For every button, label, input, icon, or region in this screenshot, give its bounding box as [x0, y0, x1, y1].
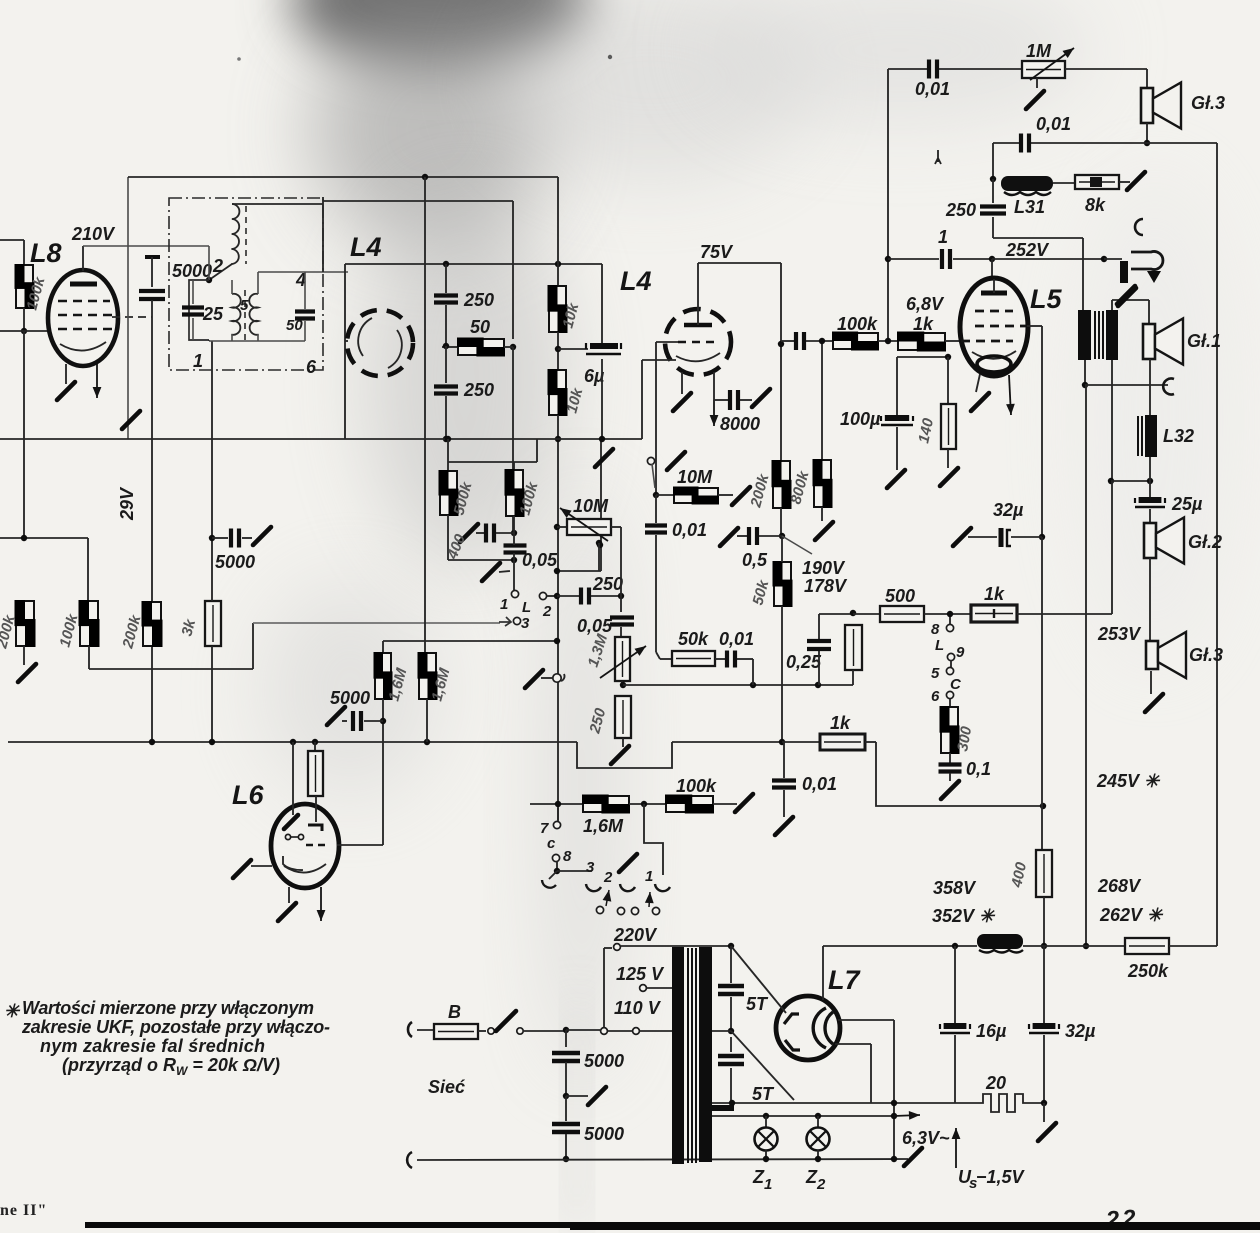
- pot arrow: [560, 508, 608, 541]
- svg-text:zakresie UKF, pozostałe przy w: zakresie UKF, pozostałe przy włączo-: [21, 1017, 330, 1037]
- wire: [765, 1150, 767, 1159]
- wire: [993, 237, 1083, 239]
- svg-text:8: 8: [931, 621, 940, 638]
- wire: [896, 427, 898, 470]
- svg-text:262V ✳: 262V ✳: [1099, 905, 1164, 925]
- wire: [621, 945, 731, 947]
- resistor 1k (output grid): [971, 605, 1017, 622]
- potentiometer 1,3M: [615, 637, 630, 681]
- svg-text:268V: 268V: [1097, 876, 1142, 896]
- node junction: [209, 739, 215, 745]
- coil primary winding: [231, 204, 239, 264]
- wire: [1111, 360, 1113, 481]
- speaker Gł.3 (top): [1141, 83, 1181, 129]
- wire: [382, 641, 384, 653]
- wire: [513, 533, 515, 545]
- capacitor 32µ: [1029, 1024, 1059, 1033]
- wire: [192, 318, 194, 340]
- potentiometer 10M: [567, 519, 611, 535]
- wire: [1146, 69, 1148, 88]
- svg-text:352V ✳: 352V ✳: [932, 906, 996, 926]
- wire: [652, 464, 655, 488]
- wire: [344, 264, 346, 439]
- capacitor 250 (upper): [434, 296, 458, 303]
- svg-text:100k: 100k: [676, 776, 717, 796]
- node junction: [952, 943, 958, 949]
- wire: [660, 658, 672, 660]
- node junction: [815, 1156, 821, 1162]
- capacitor 250 (lower): [434, 387, 458, 394]
- wire: [524, 1030, 565, 1032]
- node junction: [511, 557, 517, 563]
- svg-text:Gł.2: Gł.2: [1188, 532, 1222, 552]
- capacitor 32µ (coupling): [1001, 528, 1011, 547]
- L8 lead arrow down: [93, 364, 102, 398]
- svg-text:5: 5: [931, 665, 940, 682]
- wire: [557, 177, 559, 286]
- jack triangle: [1147, 271, 1161, 283]
- switch slash: [327, 707, 345, 725]
- wire wiper: [1036, 78, 1038, 88]
- wire: [765, 1116, 767, 1128]
- svg-text:Gł.3: Gł.3: [1191, 93, 1225, 113]
- node junction: [380, 718, 386, 724]
- wire: [1085, 384, 1168, 386]
- small antenna mark: [935, 150, 941, 164]
- wire: [1023, 945, 1125, 947]
- wire U-dip: [577, 742, 672, 768]
- tube L5 envelope: [960, 278, 1028, 376]
- resistor 3k: [205, 601, 221, 646]
- capacitor (coupling to L5): [796, 332, 804, 350]
- wire: [1150, 671, 1152, 694]
- svg-text:210V: 210V: [71, 224, 116, 244]
- node junction: [850, 610, 856, 616]
- wire: [852, 684, 854, 686]
- wire: [878, 340, 898, 342]
- switch slash: [482, 563, 500, 581]
- wire: [655, 342, 657, 495]
- wire: [924, 613, 971, 615]
- resistor 1,6M (first): [374, 652, 393, 700]
- resistor 50k: [672, 651, 715, 666]
- mains terminal lower: [407, 1152, 412, 1168]
- resistor 400: [1036, 850, 1052, 897]
- svg-text:0,01: 0,01: [915, 79, 950, 99]
- capacitor 5000 (grid): [353, 711, 361, 731]
- node junction: [1147, 478, 1153, 484]
- wire: [23, 308, 25, 331]
- chassis slash: [122, 411, 140, 429]
- wire: [192, 280, 194, 304]
- core dashed line: [245, 206, 247, 264]
- switch slash: [667, 452, 685, 470]
- wire: [211, 646, 213, 742]
- svg-text:6: 6: [306, 357, 317, 377]
- node junction: [891, 1156, 897, 1162]
- resistor 20 zigzag: [978, 1094, 1026, 1112]
- L4 lead: [681, 372, 683, 394]
- chassis slash: [233, 860, 251, 878]
- resistor 1k (cathode): [820, 734, 865, 750]
- wire: [448, 559, 514, 561]
- wire: [1111, 481, 1113, 614]
- node junction: [149, 739, 155, 745]
- node junction: [620, 682, 626, 688]
- switch slash: [588, 1087, 606, 1105]
- wire: [242, 537, 252, 539]
- node junction: [990, 176, 996, 182]
- capacitor 50: [295, 312, 315, 319]
- wire: [835, 1043, 871, 1045]
- chassis slash: [815, 522, 833, 540]
- svg-text:5000: 5000: [172, 261, 212, 281]
- svg-text:250k: 250k: [1127, 961, 1169, 981]
- wire: [445, 305, 447, 345]
- node junction: [891, 1113, 897, 1119]
- anode stem: [697, 278, 699, 325]
- tube L6 envelope: [271, 804, 339, 888]
- wire: [949, 617, 951, 624]
- svg-text:29V: 29V: [117, 486, 137, 521]
- svg-text:5000: 5000: [215, 552, 255, 572]
- bottom page edge bar: [85, 1222, 1260, 1228]
- capacitor 0,01 (to speaker line): [1021, 134, 1029, 153]
- coil secondary winding right: [249, 294, 258, 335]
- contact cup: [542, 880, 556, 888]
- resistor 1,6M (second): [418, 652, 438, 700]
- svg-text:✳: ✳: [4, 1001, 21, 1021]
- svg-text:Gł.3: Gł.3: [1189, 645, 1223, 665]
- node junction: [554, 868, 560, 874]
- resistor 50k: [773, 561, 793, 607]
- node junction: [554, 568, 560, 574]
- wire: [565, 1096, 567, 1121]
- svg-text:6,3V~: 6,3V~: [902, 1128, 950, 1148]
- filter choke: [977, 934, 1023, 953]
- resistor 300: [940, 706, 960, 754]
- wire: [620, 596, 622, 612]
- node junction: [728, 943, 734, 949]
- power transformer windings: [672, 947, 712, 1164]
- tap 220V: [601, 1028, 608, 1035]
- svg-text:L6: L6: [232, 780, 264, 810]
- wire: [549, 871, 557, 879]
- wire: [209, 340, 232, 342]
- wire: [601, 438, 642, 440]
- wire: [781, 340, 794, 342]
- svg-text:3: 3: [521, 615, 530, 632]
- node junction: [555, 346, 561, 352]
- svg-text:1M: 1M: [1026, 41, 1052, 61]
- wire: [424, 177, 426, 653]
- svg-text:1: 1: [938, 227, 948, 247]
- node junction: [312, 739, 318, 745]
- antenna terminal T: [145, 255, 160, 259]
- wire: [853, 613, 880, 615]
- node junction: [815, 1113, 821, 1119]
- pin 5 terminal: [946, 667, 953, 674]
- svg-text:20: 20: [985, 1073, 1006, 1093]
- wire: [557, 332, 559, 370]
- L5 cathode arrow: [1006, 375, 1015, 415]
- svg-text:5: 5: [240, 297, 249, 314]
- resistor 100k (AVC): [665, 795, 714, 814]
- wire: [557, 570, 601, 572]
- wire: [715, 658, 726, 660]
- wire: [713, 372, 715, 400]
- node junction: [597, 542, 603, 548]
- wire: [806, 340, 833, 342]
- contact cup 2: [620, 884, 635, 891]
- L5 heater oval: [977, 356, 1011, 372]
- wire: [781, 536, 783, 562]
- wire: [315, 796, 317, 822]
- pin 1 terminal: [511, 590, 518, 597]
- wire: [620, 527, 622, 596]
- resistor 10k (upper): [548, 285, 568, 333]
- svg-text:2: 2: [212, 256, 223, 276]
- speaker Gł.1: [1143, 319, 1183, 365]
- capacitor 0,05: [504, 546, 527, 553]
- node junction: [21, 535, 27, 541]
- capacitor 400: [486, 524, 494, 543]
- wire grid to 5000/1,6M: [337, 844, 383, 846]
- wire grid right: [1027, 325, 1042, 327]
- capacitor 6µ electrolytic: [586, 343, 621, 354]
- wire: [323, 200, 513, 202]
- wire: [530, 803, 583, 805]
- wire: [252, 623, 254, 669]
- capacitor 5T (upper): [718, 986, 744, 994]
- wire: [945, 340, 961, 342]
- wire: [87, 538, 89, 601]
- svg-text:−1,5V: −1,5V: [976, 1167, 1026, 1187]
- wire: [566, 1029, 600, 1031]
- capacitor 0,25: [807, 641, 831, 649]
- resistor 500: [880, 606, 924, 622]
- pin 7 terminal: [553, 821, 560, 828]
- node junction: [728, 1028, 734, 1034]
- wire: [950, 660, 952, 668]
- L6 lead: [251, 865, 272, 867]
- node junction: [1083, 943, 1089, 949]
- plug curl: [561, 674, 565, 681]
- wire: [88, 646, 90, 669]
- wire: [821, 507, 823, 521]
- wire: [1119, 181, 1130, 183]
- wire: [1169, 945, 1217, 947]
- wire: [603, 948, 605, 1027]
- svg-text:3: 3: [586, 859, 595, 876]
- cathode arrow down: [710, 400, 719, 426]
- switch slash: [732, 487, 750, 505]
- wire: [1082, 238, 1084, 310]
- wire: [232, 340, 305, 342]
- wiper slash: [1026, 91, 1044, 109]
- switch arrow: [645, 892, 654, 907]
- wire: [314, 742, 316, 751]
- wire: [1149, 457, 1151, 481]
- node junction: [819, 338, 825, 344]
- wire: [608, 1030, 632, 1032]
- capacitor 5000 (mains): [552, 1053, 580, 1061]
- wire: [591, 595, 621, 597]
- wire: [512, 347, 514, 533]
- wire: [752, 659, 754, 685]
- wire left frame: [127, 177, 129, 439]
- node junction: [815, 682, 821, 688]
- wire: [566, 1095, 588, 1097]
- node junction: [1101, 256, 1107, 262]
- wire: [478, 1030, 486, 1032]
- L5 grid dashes row2: [975, 325, 1027, 328]
- chassis slash: [971, 393, 989, 411]
- wire: [304, 321, 306, 341]
- node junction: [443, 343, 449, 349]
- wire: [780, 508, 782, 536]
- wire: [1026, 1102, 1044, 1104]
- capacitor 5000 (AVC): [231, 529, 239, 548]
- pot 1,3M arrow: [600, 646, 646, 678]
- node junction: [1039, 534, 1045, 540]
- wire: [598, 543, 600, 571]
- wire: [231, 280, 233, 294]
- wire: [1149, 359, 1151, 415]
- tap 125V: [640, 985, 647, 992]
- wire: [212, 537, 228, 539]
- wire cathode out: [642, 359, 676, 361]
- wire: [557, 870, 592, 872]
- potentiometer 1M: [1022, 61, 1065, 78]
- tube L4 (AF) envelope dashed: [665, 309, 731, 375]
- node junction: [424, 739, 430, 745]
- wire: [655, 495, 657, 523]
- wire: [257, 334, 259, 341]
- wire: [1111, 300, 1113, 310]
- wire L8 anode to 210V: [82, 246, 84, 271]
- jack hook: [1131, 252, 1163, 270]
- wire AVC bus lower: [8, 741, 577, 743]
- chassis slash: [941, 781, 959, 799]
- svg-text:0,01: 0,01: [719, 629, 754, 649]
- node junction: [554, 593, 560, 599]
- wire: [817, 1116, 819, 1128]
- wire: [565, 1134, 567, 1159]
- jack body: [1120, 261, 1128, 283]
- svg-text:5T: 5T: [746, 994, 769, 1014]
- node junction: [891, 1100, 897, 1106]
- svg-text:B: B: [448, 1002, 461, 1022]
- svg-text:250: 250: [945, 200, 976, 220]
- svg-text:6,8V: 6,8V: [906, 294, 945, 314]
- node junction: [445, 436, 451, 442]
- wire: [1011, 536, 1042, 538]
- wire: [714, 399, 728, 401]
- wire: [89, 668, 253, 670]
- wire: [151, 646, 153, 742]
- svg-text:L: L: [522, 599, 531, 616]
- capacitor 0,01: [645, 526, 667, 533]
- wire: [151, 257, 153, 287]
- chassis slash: [940, 468, 958, 486]
- switch slash: [953, 528, 971, 546]
- resistor 500k: [439, 470, 459, 516]
- node junction: [763, 1156, 769, 1162]
- capacitor 25: [182, 308, 204, 315]
- resistor 200k (anode load): [772, 460, 792, 509]
- svg-text:250: 250: [463, 290, 494, 310]
- wire: [993, 142, 1019, 144]
- contact cup 1: [655, 884, 670, 891]
- svg-text:L32: L32: [1163, 426, 1194, 446]
- wire: [304, 272, 306, 309]
- wire: [821, 341, 823, 460]
- switch slash: [460, 524, 478, 542]
- svg-text:0,1: 0,1: [966, 759, 991, 779]
- svg-text:500: 500: [885, 586, 915, 606]
- wire: [23, 646, 25, 665]
- L5 grid dashes row1: [975, 310, 1013, 313]
- svg-text:nym zakresie fal średnich: nym zakresie fal średnich: [40, 1036, 265, 1056]
- wire: [1146, 123, 1148, 143]
- plug terminal on bus: [553, 674, 561, 682]
- svg-text:252V: 252V: [1005, 240, 1050, 260]
- wire: [1031, 142, 1217, 144]
- svg-text:1,6M: 1,6M: [583, 816, 624, 836]
- resistor 200k: [15, 600, 36, 647]
- wire: [557, 808, 559, 820]
- wire: [513, 553, 515, 590]
- open terminal: [647, 457, 654, 464]
- wire: [536, 439, 538, 462]
- wire 210V rail: [83, 245, 209, 247]
- wire box right edge: [322, 197, 324, 272]
- wire screen rail: [345, 263, 602, 265]
- wire: [556, 861, 558, 871]
- wire: [445, 396, 447, 439]
- wire: [1043, 897, 1045, 946]
- speaker Gł.3 (bottom): [1146, 632, 1186, 678]
- svg-text:5000: 5000: [584, 1051, 624, 1071]
- wire: [600, 439, 602, 571]
- wire: [949, 773, 951, 781]
- L7 cathode arcs: [813, 1008, 826, 1048]
- svg-text:2: 2: [542, 603, 552, 620]
- pointer line: [782, 536, 812, 554]
- capacitor 250 (series): [581, 588, 589, 605]
- svg-text:100k: 100k: [837, 314, 878, 334]
- capacitor 1: [942, 249, 950, 269]
- svg-text:8k: 8k: [1085, 195, 1106, 215]
- capacitor 25µ: [1135, 498, 1165, 507]
- wire: [383, 640, 557, 642]
- svg-text:75V: 75V: [700, 242, 734, 262]
- capacitor 0,05 (second): [610, 618, 634, 625]
- svg-text:5000: 5000: [584, 1124, 624, 1144]
- output transformer windings: [1078, 310, 1118, 360]
- svg-text:6: 6: [931, 688, 940, 705]
- contact cup 3: [586, 884, 601, 891]
- node junction: [750, 682, 756, 688]
- svg-text:Gł.1: Gł.1: [1187, 331, 1221, 351]
- tube L7 envelope: [776, 996, 840, 1060]
- wire: [865, 741, 876, 743]
- svg-text:0,5: 0,5: [742, 550, 768, 570]
- wire: [730, 1068, 732, 1103]
- node junction: [422, 174, 428, 180]
- wire: [442, 346, 458, 348]
